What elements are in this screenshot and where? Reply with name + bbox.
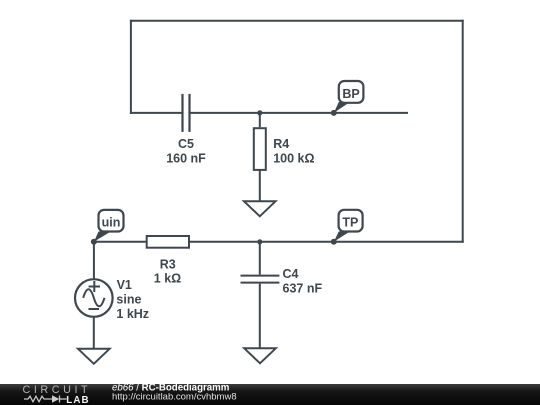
wire top horizontal (130, 20, 464, 22)
svg-text:BP: BP (342, 87, 359, 101)
node BP probe junction (331, 110, 337, 116)
node junction R4/top wire (257, 110, 262, 115)
V1 sine wave (83, 289, 104, 306)
wire bottom horizontal (94, 241, 464, 243)
svg-text:100 kΩ: 100 kΩ (273, 152, 314, 166)
flag BP pointer (334, 102, 350, 113)
flag uin bubble (99, 210, 124, 232)
ground below C4 (244, 348, 276, 363)
node junction C4/bottom wire (257, 239, 262, 244)
svg-text:R4: R4 (273, 137, 289, 151)
svg-text:1 kHz: 1 kHz (116, 307, 149, 321)
svg-text:R3: R3 (160, 258, 176, 272)
svg-text:uin: uin (102, 216, 121, 230)
V1 minus sign (89, 308, 100, 310)
logo diode triangle (52, 395, 59, 402)
svg-text:sine: sine (116, 292, 141, 306)
wire mid left of C5 (130, 112, 182, 114)
flag TP pointer (334, 231, 350, 241)
voltage source V1 (75, 242, 113, 349)
flag uin pointer (94, 231, 111, 241)
resistor R4 (254, 113, 266, 201)
svg-text:C4: C4 (283, 267, 299, 281)
capacitor C5 (183, 94, 190, 132)
wire right rail (462, 20, 464, 243)
svg-text:http://circuitlab.com/cvhbmw8: http://circuitlab.com/cvhbmw8 (112, 391, 237, 402)
wire mid right of C5 (191, 112, 409, 114)
svg-text:V1: V1 (117, 278, 132, 292)
ground below R4 (244, 201, 276, 216)
flag BP bubble (339, 81, 364, 103)
node uin junction (91, 239, 97, 245)
svg-text:C5: C5 (178, 137, 194, 151)
logo resistor zigzag and diode (24, 396, 67, 403)
svg-text:637 nF: 637 nF (283, 282, 323, 296)
footer bar (0, 384, 540, 405)
svg-text:1 kΩ: 1 kΩ (154, 272, 181, 286)
svg-text:LAB: LAB (66, 395, 89, 405)
svg-text:TP: TP (342, 215, 358, 229)
resistor R3 (147, 236, 189, 248)
V1 plus sign (89, 281, 100, 292)
node TP probe junction (331, 239, 337, 245)
wire left rail (130, 20, 132, 114)
svg-text:160 nF: 160 nF (166, 152, 206, 166)
flag TP bubble (339, 210, 363, 232)
ground below V1 (78, 349, 110, 364)
capacitor C4 (241, 242, 280, 348)
